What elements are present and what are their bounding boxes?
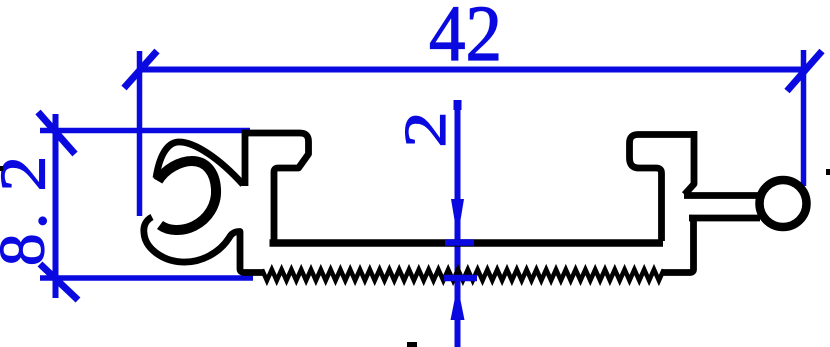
stray mark right edge: [826, 169, 830, 175]
left lip outer leg: [242, 130, 249, 186]
dimension 42 right extension line: [801, 50, 807, 186]
dimension 2 upper arrow: [451, 199, 464, 238]
dimension 8.2 top extension line: [40, 128, 250, 134]
svg-text:8: 8: [0, 234, 59, 267]
channel floor line: [270, 239, 664, 247]
dimension 8.2 bottom extension line: [40, 275, 253, 281]
dimension 2 lower arrow: [451, 285, 465, 320]
clip inner crescent: [158, 161, 216, 230]
dimension 2 lower extent tick: [444, 275, 477, 282]
stem bottom edge: [689, 215, 760, 222]
dimension 42 left extension line: [137, 51, 143, 216]
dimension 42 horizontal dimension line: [140, 67, 804, 73]
svg-text:.: .: [0, 213, 61, 229]
stray dot left edge: [0, 166, 3, 171]
svg-text:2: 2: [0, 156, 59, 192]
dimension 8.2 top tick: [38, 112, 75, 154]
dimension 42 left tick: [124, 51, 157, 88]
right bar outer edge lower: [662, 218, 694, 273]
profile outline black strokes: [144, 130, 807, 281]
svg-text:2: 2: [393, 112, 458, 148]
dimension 42 right tick: [787, 51, 822, 91]
dimension 2 vertical dimension line: [455, 101, 461, 347]
dimension 2 upper extent tick: [445, 239, 474, 246]
clip upper outer arc: [156, 142, 243, 185]
stray mark bottom: [407, 342, 417, 347]
svg-text:42: 42: [429, 0, 502, 78]
ball circle: [760, 180, 807, 227]
dimension 8.2 vertical dimension line: [53, 114, 59, 298]
dimension 8.2 bottom tick: [40, 264, 78, 300]
right hook: [630, 135, 693, 242]
left lip top and hook: [242, 133, 309, 240]
clip lower outer arc and bottom wall left edge: [144, 217, 263, 273]
serrated bottom edge: [262, 270, 664, 281]
stem top edge: [684, 192, 763, 199]
right bar outer edge upper: [685, 131, 695, 195]
